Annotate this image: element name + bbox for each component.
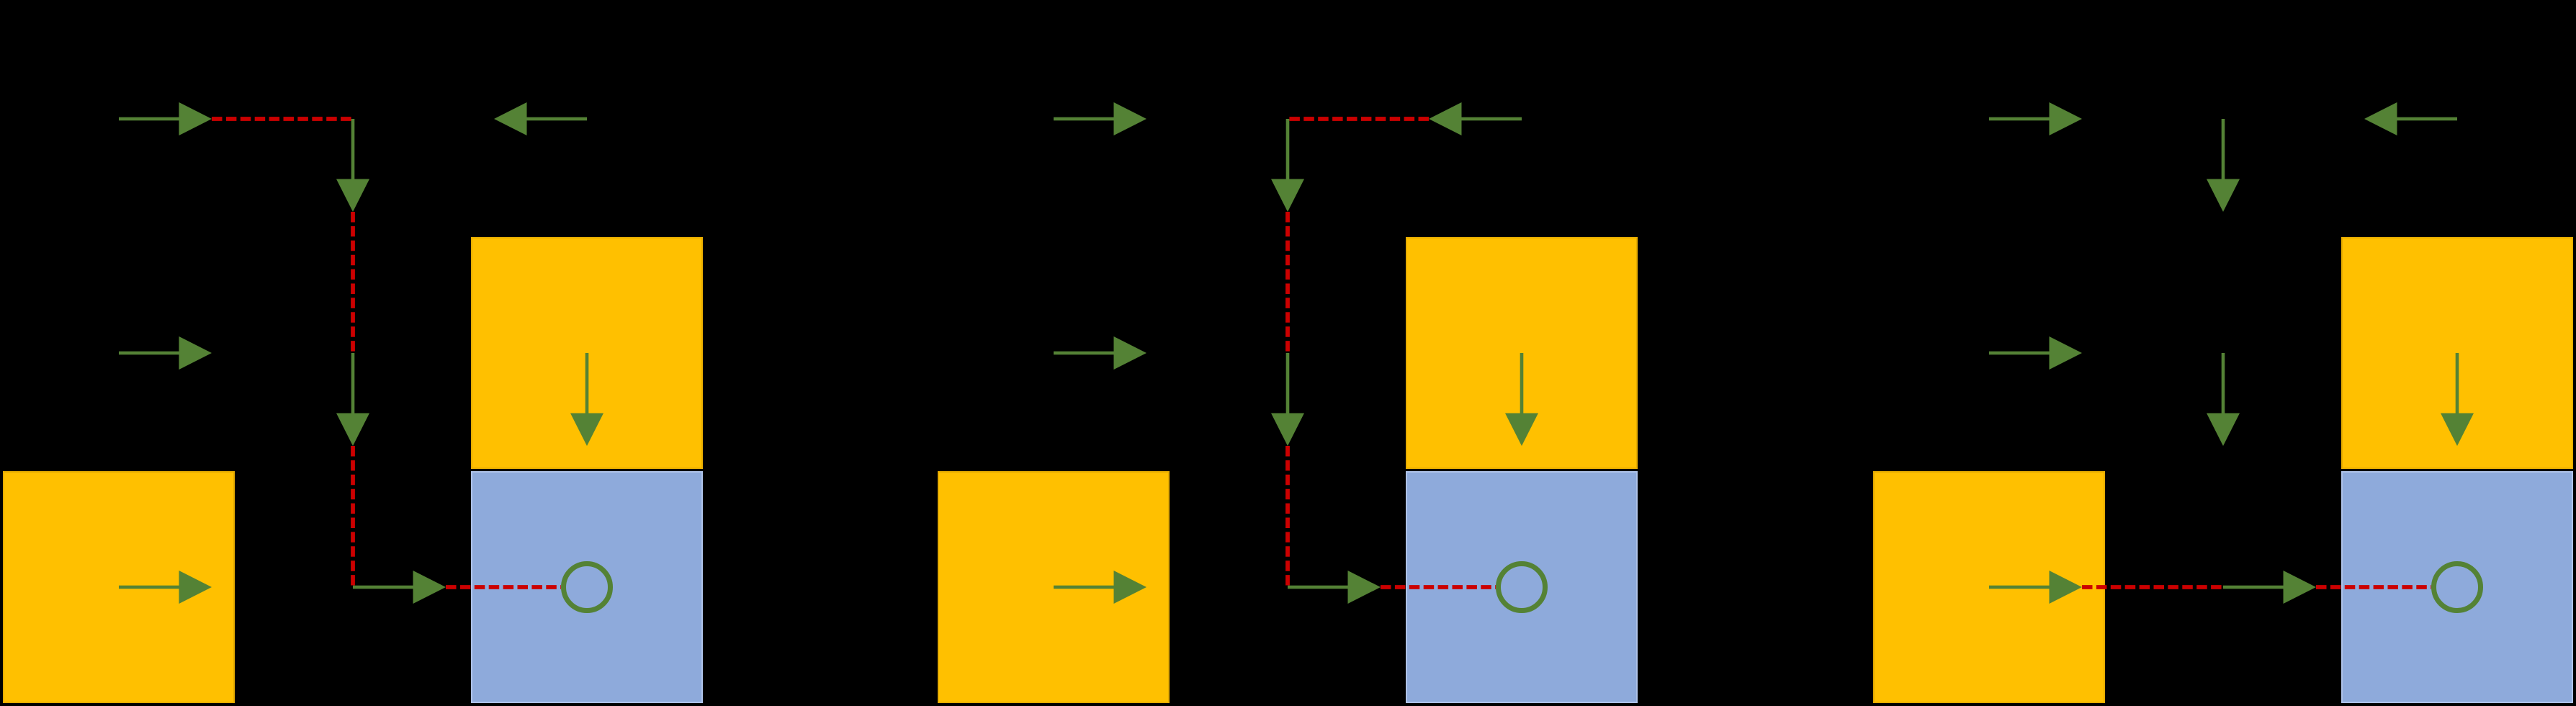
panel 2 blue goal square bottom-right [1406,472,1637,702]
panel 2 green arrow L top row cell 2 [1429,102,1522,135]
panel 1 green arrow R bottom row cell 1 [353,571,446,604]
panel 2 yellow obstacle square bottom-left [938,472,1169,702]
panel 2 green arrow D middle row cell 2 [1505,353,1538,446]
panel 3 red dash segment bottom row left [2082,585,2223,589]
panel 3 green goal circle [2434,564,2481,611]
panel 1 green arrow L top row cell 2 [494,102,587,135]
panel 2 green arrow R bottom row cell 1 [1288,571,1381,604]
panel 3 green arrow L top row cell 2 [2364,102,2457,135]
panel 2 green arrow R bottom row cell 0 (inside yellow) [1054,571,1146,604]
panel 2 green arrow R middle row cell 0 [1054,336,1146,370]
panel 1 green arrow D middle row cell 1 [336,353,369,446]
panel 3 green arrow D middle row cell 1 [2207,353,2240,446]
panel 2 red dash segment middle column upper [1285,212,1290,353]
panel 1 red dash segment top row [212,117,353,121]
panel 3 yellow obstacle square bottom-left [1874,472,2104,702]
panel 3 green arrow R bottom row cell 1 [2223,571,2316,604]
panel 1 red dash segment middle column upper [351,212,355,353]
panel 2 green goal circle [1499,564,1545,611]
panel 3 yellow obstacle square middle-right [2342,238,2572,468]
panel 1 green arrow R top row cell 0 [119,102,212,135]
panel 1 yellow obstacle square bottom-left [4,472,234,702]
panel 2 red dash segment middle column lower [1285,446,1290,586]
panel 2 yellow obstacle square middle-right [1406,238,1637,468]
panel 2 red dash segment top row [1288,117,1429,121]
panel 3 green arrow D top row cell 1 [2207,119,2240,212]
panel 1 blue goal square bottom-right [472,472,702,702]
panel 3 green arrow R top row cell 0 [1989,102,2082,135]
panel 1 green arrow R bottom row cell 0 (inside yellow) [119,571,212,604]
panel 3 blue goal square bottom-right [2342,472,2572,702]
panel 2 green arrow R top row cell 0 [1054,102,1146,135]
panel 1 yellow obstacle square middle-right [472,238,702,468]
panel 2 green arrow D middle row cell 1 [1271,353,1304,446]
panel 3 green arrow R bottom row cell 0 (inside yellow) [1989,571,2082,604]
panel 2 red dash segment bottom row [1381,585,1496,589]
panel 1 red dash segment bottom row [446,585,561,589]
panel 3 green arrow D middle row cell 2 [2441,353,2474,446]
panel 1 green goal circle [564,564,611,611]
panel 3 red dash segment bottom row right [2316,585,2431,589]
panel 1 green arrow D top row cell 1 [336,119,369,212]
panel 2 green arrow D top row cell 1 [1271,119,1304,212]
panel 1 red dash segment middle column lower [351,446,355,586]
panel 1 green arrow R middle row cell 0 [119,336,212,370]
panel 3 green arrow R middle row cell 0 [1989,336,2082,370]
panel 1 green arrow D middle row cell 2 [570,353,603,446]
